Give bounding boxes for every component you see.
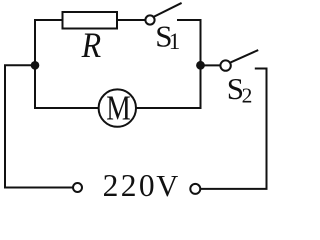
svg-text:1: 1	[169, 29, 181, 54]
svg-text:R: R	[81, 25, 102, 65]
svg-text:2: 2	[242, 84, 253, 108]
svg-text:220: 220	[103, 168, 157, 203]
svg-text:M: M	[106, 88, 131, 127]
svg-text:V: V	[156, 169, 178, 203]
